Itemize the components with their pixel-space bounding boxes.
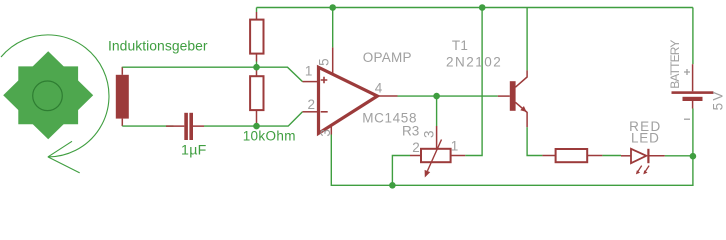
transistor emitter lead <box>515 102 527 127</box>
emitter arrow <box>520 106 526 112</box>
wire op-amp V+ to rail <box>332 8 334 48</box>
wire emitter down and to resistor <box>527 127 542 155</box>
battery plus mark <box>684 69 690 75</box>
svg-text:OPAMP: OPAMP <box>363 50 412 65</box>
svg-text:10kOhm: 10kOhm <box>243 129 296 144</box>
capacitor C plates <box>184 113 188 140</box>
junction top rail / R3 branch <box>479 4 486 11</box>
op-amp pin4 stub (output) <box>377 95 397 97</box>
op-amp pin3 stub (V-) <box>330 126 332 135</box>
rotating wheel pictogram (induction sensor target) <box>3 51 93 139</box>
svg-text:1µF: 1µF <box>181 142 207 158</box>
wire R3 pin1 up to top rail <box>465 8 482 156</box>
wire R2 top/bottom <box>256 67 258 126</box>
battery minus lead <box>692 101 694 109</box>
svg-text:Induktionsgeber: Induktionsgeber <box>108 38 208 54</box>
junction divider bottom <box>253 123 260 130</box>
LED anode stub <box>621 155 631 157</box>
op-amp minus mark <box>321 111 328 113</box>
svg-text:1: 1 <box>305 63 313 78</box>
svg-text:R3: R3 <box>402 123 419 138</box>
op-amp pin1 stub <box>303 81 318 83</box>
transistor Q1 base bar <box>510 81 516 111</box>
battery minus mark <box>684 118 690 120</box>
R2 pin stubs <box>256 71 258 124</box>
wire op-amp output to transistor base <box>398 95 498 97</box>
op-amp plus mark <box>321 77 328 84</box>
svg-text:5: 5 <box>317 58 332 66</box>
svg-text:3: 3 <box>422 130 437 138</box>
LED triangle <box>631 149 646 163</box>
R1 pin stubs <box>256 12 258 62</box>
junction output / R3 wiper <box>433 93 440 100</box>
op-amp pin5 stub (V+) <box>332 47 334 74</box>
wire output junction down to R3 pin3 <box>436 96 438 126</box>
transistor collector lead <box>515 70 527 87</box>
inductor bottom pin stub <box>121 119 123 127</box>
LED cathode stub <box>648 155 664 157</box>
svg-text:2N2102: 2N2102 <box>446 54 502 69</box>
wire collector to top rail <box>526 8 528 71</box>
capacitor pin stubs <box>166 125 204 127</box>
emitter resistor stubs <box>542 155 602 157</box>
R3 pin2 stub <box>410 155 421 157</box>
svg-text:2: 2 <box>412 140 420 155</box>
wire resistor to LED <box>602 155 621 157</box>
inductor top pin stub <box>121 67 123 75</box>
wire battery minus to LED node <box>692 109 694 157</box>
wire top rail down to battery <box>692 8 694 65</box>
svg-text:2: 2 <box>307 97 315 112</box>
junction bottom rail / R3 <box>389 182 396 189</box>
resistor R2 (bottom of divider) <box>250 76 263 110</box>
junction divider mid <box>253 64 260 71</box>
emitter resistor body <box>556 149 588 162</box>
junction LED/battery/rail <box>690 153 697 160</box>
LED emission arrows <box>637 166 649 173</box>
wire R1 bottom to mid node <box>256 62 258 68</box>
wire base <box>498 95 510 97</box>
battery long plate <box>672 91 714 94</box>
LED cathode bar <box>647 149 649 163</box>
junction top rail / op-amp V+ <box>329 4 336 11</box>
R3 pin1 stub <box>451 155 466 157</box>
svg-text:BATTERY: BATTERY <box>668 40 682 89</box>
op-amp U1 triangle <box>319 67 378 133</box>
resistor R1 (top of divider) <box>250 20 263 54</box>
svg-text:3: 3 <box>318 129 333 137</box>
svg-text:4: 4 <box>375 81 383 96</box>
R3 pin3 stub <box>436 126 438 149</box>
svg-text:1: 1 <box>451 139 459 154</box>
inductor (sensor coil) <box>116 75 129 119</box>
wire: inductor top to divider mid and op-amp pin1 <box>122 67 302 81</box>
rotation arrow arc <box>1 35 109 173</box>
wire: inductor bottom to capacitor <box>122 125 173 127</box>
bottom rail from op-amp V- to battery node <box>331 135 693 186</box>
svg-text:T1: T1 <box>452 38 468 53</box>
wire LED to battery node <box>665 155 693 157</box>
wire R1 top to rail <box>256 8 258 13</box>
battery short plate <box>683 97 703 101</box>
R3 wiper arrow <box>427 140 441 172</box>
svg-text:5V: 5V <box>711 89 726 110</box>
trimmer R3 body <box>421 149 451 162</box>
op-amp pin2 stub <box>303 111 318 113</box>
wire: capacitor to op-amp pin2 <box>204 112 303 126</box>
wire R3 pin2 to bottom rail <box>392 156 410 186</box>
svg-text:LED: LED <box>631 131 660 146</box>
battery plus lead <box>692 64 694 91</box>
top supply rail <box>257 7 693 9</box>
